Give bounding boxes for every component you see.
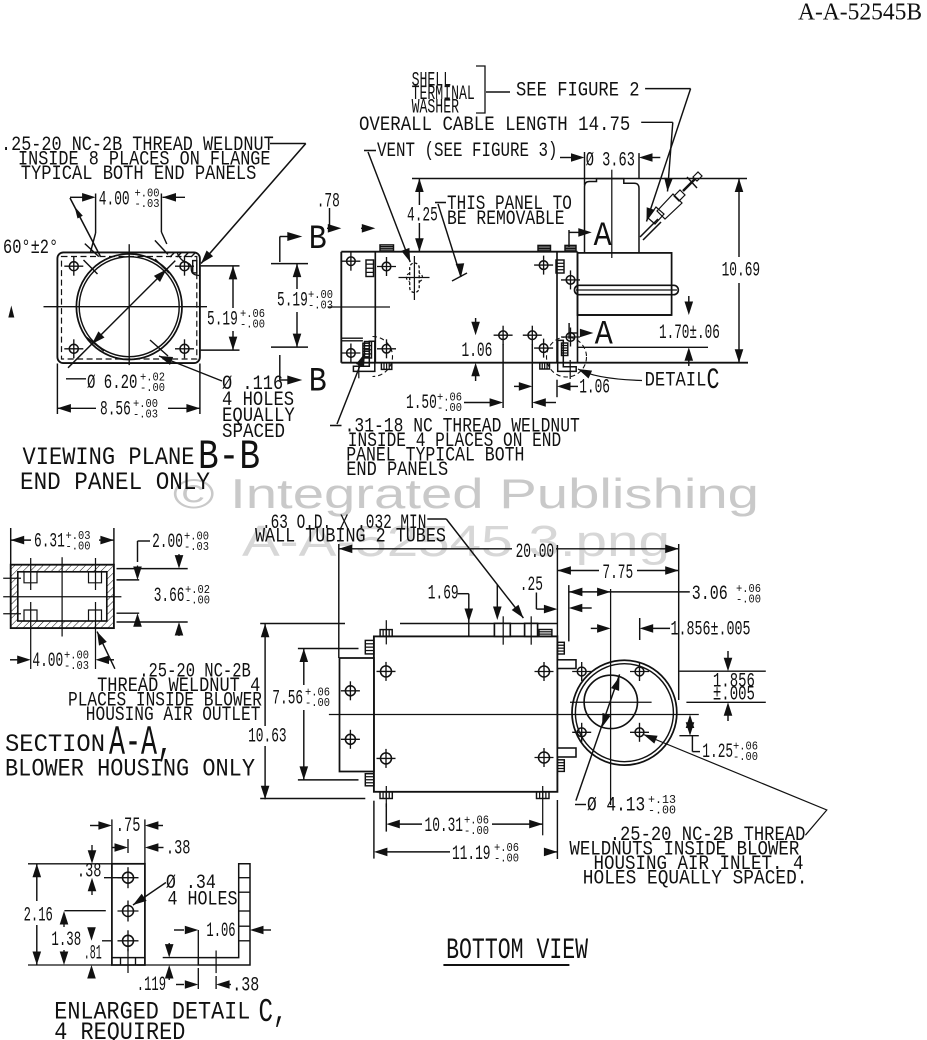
left edge stack bottom [365,774,374,786]
detail bar foot lines [112,957,145,959]
svg-text:8.56: 8.56 [100,399,131,422]
side view holes bottom [347,349,356,358]
svg-text:5.19: 5.19 [207,309,238,332]
svg-text:4.00: 4.00 [32,650,63,673]
inlet centerline horizontal [570,701,652,703]
svg-text:VENT (SEE FIGURE 3): VENT (SEE FIGURE 3) [377,140,558,163]
leader 31-18 weldnut [337,353,365,424]
section notch crosshairs [30,558,32,590]
svg-text:-.00: -.00 [494,853,519,866]
centerline end arrow [8,306,14,318]
svg-text:4 REQUIRED: 4 REQUIRED [54,1018,185,1040]
svg-text:1.38: 1.38 [51,929,81,952]
svg-text:2.16: 2.16 [24,905,53,928]
bracket shell group [476,66,485,113]
svg-text:20.00: 20.00 [516,541,555,564]
svg-text:-.03: -.03 [133,408,158,421]
tube stub 1 [494,623,510,636]
motor body [578,253,672,315]
note see figure 2 [486,91,510,93]
housing left edge [340,252,342,363]
svg-text:-.03: -.03 [135,198,160,211]
right corner bracket [558,340,577,371]
right edge tab bottom [557,748,576,757]
svg-text:1.69: 1.69 [428,583,459,606]
section outer rect [11,565,114,628]
dim 1.70 [577,346,708,348]
svg-text:1.70±.06: 1.70±.06 [659,322,720,345]
detail side L outline [198,864,250,965]
dim dia 3.63 [584,152,586,185]
svg-text:-.00: -.00 [66,541,91,554]
svg-text:10.63: 10.63 [248,726,287,749]
dim 5.19 side view [271,263,308,265]
svg-text:6.31: 6.31 [34,531,65,554]
flange centerline horizontal [44,306,208,308]
detail bar outline [112,864,145,965]
hole leader detail [133,883,166,906]
svg-text:TYPICAL BOTH END PANELS: TYPICAL BOTH END PANELS [21,163,257,186]
svg-text:7.75: 7.75 [602,562,633,585]
svg-text:10.31: 10.31 [425,815,464,838]
svg-text:-.00: -.00 [464,825,489,838]
svg-text:BE REMOVABLE: BE REMOVABLE [447,208,565,231]
right panel line [556,252,558,363]
dim .75 [90,825,100,827]
section inner rect [18,572,107,621]
stub top reference line [260,623,345,625]
svg-text:-.03: -.03 [184,541,209,554]
section corner notches [24,572,37,583]
flange corner hole top-left [69,262,78,271]
lower bolt hole slashes [86,337,104,351]
svg-text:.38: .38 [232,975,259,998]
svg-text:.78: .78 [317,191,340,214]
right panel outer line [577,252,579,363]
flange corner hole top-right [180,262,189,271]
leader vent [368,152,410,262]
dim 1.50 [502,344,504,408]
section mark B lower [280,379,288,381]
flange outline [57,252,200,363]
svg-text:4 HOLES: 4 HOLES [168,889,238,912]
dim .38 bottom [176,984,184,986]
svg-text:Ø 4.13: Ø 4.13 [587,795,645,818]
bottom edge tab right [537,792,550,799]
svg-text:Ø 6.20: Ø 6.20 [87,372,137,395]
flange dashed inner rect [62,257,197,360]
top edge weldnut stack right2 [565,245,576,251]
svg-text:SEE FIGURE 2: SEE FIGURE 2 [516,80,640,103]
air outlet duct [340,658,374,772]
leader weldnut note to flange corner [270,143,306,145]
left panel inner line [374,252,376,363]
left panel weldnut stack bottom [365,342,372,359]
section mark A lower [568,323,570,339]
flange corner hole bottom-right [180,344,189,353]
svg-text:HOLES EQUALLY SPACED.: HOLES EQUALLY SPACED. [583,868,808,891]
detail side L rungs [239,877,250,879]
left panel weldnut stack top [366,260,374,277]
flange corner hole bottom-left [69,344,78,353]
svg-text:-.00: -.00 [185,595,210,608]
svg-text:2.00: 2.00 [152,531,183,554]
weldnut tab below bottom left [381,363,391,370]
svg-text:© Integrated Publishing: © Integrated Publishing [173,470,759,517]
top edge weldnut stack left [380,245,394,252]
dim 7.75 [557,570,599,572]
svg-text:1.856±.005: 1.856±.005 [671,619,751,642]
leader see figure 2 to cable end [645,88,691,90]
flange centerline vertical [128,244,130,365]
svg-text:3.06: 3.06 [692,583,728,606]
section mark B upper [280,236,288,238]
main centerline bottom view [329,714,699,716]
connector body [657,194,682,219]
side view holes top [347,257,356,266]
leader inlet weldnuts [644,735,827,836]
right panel weldnut stack top [556,260,564,273]
svg-text:.75: .75 [116,815,141,838]
inlet centerline vertical [610,589,612,805]
svg-text:.25: .25 [520,574,543,597]
svg-text:A: A [594,218,613,256]
top reference line [412,178,747,180]
dim 1.25 [686,715,695,729]
svg-text:A-A-52545B: A-A-52545B [798,0,922,26]
connector neck [674,190,685,201]
extension line tab edge [568,585,570,641]
svg-text:.38: .38 [166,838,191,861]
weldnut tab below bottom right [540,363,550,369]
motor bottom edge [578,314,672,316]
svg-text:3.66: 3.66 [154,585,185,608]
dim .38 top [127,839,129,853]
svg-text:B: B [309,221,327,259]
power cable [640,219,658,237]
svg-text:1.06: 1.06 [206,920,235,943]
blower inlet bell circle [572,660,677,765]
housing bottom edge [341,362,748,364]
connector pin [683,179,695,191]
svg-text:-.00: -.00 [437,402,462,415]
svg-text:-.00: -.00 [140,382,165,395]
dim 5.19 flange [201,265,240,267]
motor centerline [611,170,613,258]
svg-text:7.56: 7.56 [272,688,303,711]
detail C leader [578,369,592,379]
svg-text:BOTTOM VIEW: BOTTOM VIEW [446,934,588,968]
motor cap [585,179,640,253]
inlet weldnut holes [577,667,586,676]
dim 8.56 [56,364,58,415]
duct holes [345,686,355,696]
svg-text:11.19: 11.19 [452,843,491,866]
dia .116 leader [159,356,222,381]
svg-text:-.00: -.00 [736,594,761,607]
dim 4.00 section [10,659,18,661]
cable boot [648,207,664,224]
bottom view main rect [374,636,558,791]
svg-text:1.06: 1.06 [579,377,610,400]
svg-text:Ø 3.63: Ø 3.63 [586,150,635,173]
flange bore circle [76,254,182,360]
motor band [575,285,679,294]
leader tubing [427,518,446,520]
dim 1.06 bottom middle [471,322,480,336]
right edge stack bottom [557,760,564,772]
svg-text:B: B [309,364,327,402]
dim .38 left [88,850,97,864]
vent slot [410,263,420,293]
svg-text:-.00: -.00 [240,319,265,332]
left edge stack top [365,640,374,654]
svg-text:END PANELS: END PANELS [346,459,448,482]
note vent see figure 3 [364,150,376,152]
top edge tab left [380,630,392,637]
extension lines 4.00 [95,194,97,234]
dia 6.20 dim diagonal [68,261,175,368]
detail foot crosshair [215,951,217,974]
svg-text:.81: .81 [84,943,102,966]
svg-text:1.50: 1.50 [406,392,437,415]
dim 6.31 [10,528,12,565]
dim 10.31 [386,820,400,829]
svg-text:-.03: -.03 [308,300,333,313]
svg-text:A: A [595,316,614,354]
dim 11.19 [374,848,388,857]
svg-text:END PANEL ONLY: END PANEL ONLY [20,468,210,497]
svg-text:±.005: ±.005 [713,684,755,707]
flange corner hatch ticks [170,253,175,258]
bottom edge tab left [380,792,392,799]
svg-text:WALL TUBING 2 TUBES: WALL TUBING 2 TUBES [255,526,446,549]
svg-text:1.06: 1.06 [462,340,493,363]
svg-text:C: C [707,364,720,398]
dim 2.16 [28,863,112,865]
svg-text:-.00: -.00 [733,751,758,764]
svg-text:-.00: -.00 [305,697,330,710]
panel centerline stub [328,306,390,308]
top edge stack right of stub2 [539,630,552,637]
flange corner weldnut detail [177,253,199,276]
connector tip [693,172,702,181]
section centerlines [61,557,63,636]
svg-text:-.03: -.03 [64,660,89,673]
tube stub 2 [525,623,538,636]
top edge weldnut stack right1 [538,245,551,251]
right edge tab top [557,660,576,669]
dim 7.56 [298,648,359,650]
note 31-18 weldnut [330,425,342,427]
dim 1.38 [60,911,69,925]
dim 10.69 [738,179,740,258]
svg-text:4.00: 4.00 [99,189,130,212]
svg-text:OVERALL CABLE LENGTH 14.75: OVERALL CABLE LENGTH 14.75 [359,114,630,137]
svg-text:.119: .119 [137,974,166,997]
note this panel removable [435,202,446,204]
svg-text:5.19: 5.19 [277,290,308,313]
left corner bracket [353,341,374,371]
leader weldnut outlet [97,632,115,669]
dim .119 [165,944,174,958]
svg-text:BLOWER HOUSING ONLY: BLOWER HOUSING ONLY [5,755,255,784]
svg-text:-.00: -.00 [648,805,676,818]
housing top edge [341,251,577,253]
svg-text:C,: C, [259,994,288,1031]
main rect holes [381,666,392,677]
svg-text:10.69: 10.69 [722,260,761,283]
svg-text:60°±2°: 60°±2° [3,237,58,260]
dim 1.06 right [556,380,558,398]
dim dia 4.13 [576,674,620,800]
dim 1.856 horizontal [591,627,597,629]
right edge stack top [557,642,564,654]
dim 1.856 vertical [679,670,765,672]
leader cable length to connector [641,121,673,123]
dim 3.06 [569,591,690,593]
svg-text:4.25: 4.25 [407,205,438,228]
detail bar holes [123,872,134,883]
dim 4.00 flange [70,196,84,198]
section mark A upper [568,230,570,247]
dim 1.06 detail [174,929,184,931]
dim .81 [87,927,96,941]
dim 20.00 [339,548,512,550]
svg-text:DETAIL: DETAIL [645,370,707,393]
dim 10.63 [264,624,266,726]
inlet hole circle 4.13 [584,675,637,728]
leader removable panel [438,204,461,277]
